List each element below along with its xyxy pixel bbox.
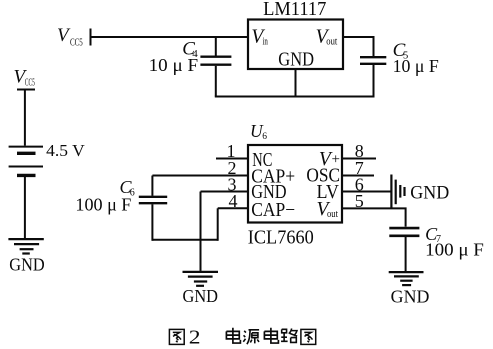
svg-text:GND: GND [9,255,44,275]
designator U6 [250,121,267,142]
IC U6 ICL7660 body [248,145,342,223]
svg-text:V: V [57,25,71,46]
label C4 [182,39,198,60]
pin label Vin [251,27,268,48]
wire: LM1117 GND pin to ground rail [295,69,297,97]
svg-text:in: in [263,37,269,48]
char lu (road) [281,328,297,342]
ground (U6 GND) [183,272,219,286]
svg-text:CC5: CC5 [25,78,35,89]
capacitor C4 [200,37,231,97]
svg-text:5: 5 [355,191,364,211]
label C6 [120,177,135,198]
svg-text:out: out [327,209,338,220]
wire: battery to ground [24,177,26,238]
pin label V+ [319,149,340,170]
wire: LM1117 Vout to C5 [343,37,374,56]
svg-text:100 μ F: 100 μ F [425,240,484,260]
pin 8 stub (V+) [342,158,376,160]
svg-text:2: 2 [189,327,201,348]
wire: VCC5 flag to battery [24,90,26,146]
svg-text:LM1117: LM1117 [263,0,327,20]
char dian (electric) [226,328,240,343]
pin 1 stub (NC) [216,158,248,160]
regulator U1 LM1117 [248,20,343,70]
wire: C6 bottom to pin 4 [152,239,217,241]
svg-text:CC5: CC5 [70,38,83,49]
wire: ground rail C4 to C5 [215,96,375,98]
figure caption: 图 2 电源电路图 [169,327,315,348]
label C7 [425,224,441,245]
capacitor C7 [389,228,419,271]
wire: pin 4 riser [217,208,219,241]
svg-text:GND: GND [183,286,219,306]
battery BT1 [9,147,43,176]
pin 6 stub / wire to ground (LV) [342,191,391,193]
svg-text:ICL7660: ICL7660 [248,226,314,248]
power flag VCC5 (battery) [14,67,36,90]
pin 4 stub (CAP-) [218,207,248,209]
svg-text:GND: GND [278,50,314,71]
pin 3 stub (GND) [201,191,249,193]
pin 5 stub / wire to C7 (Vout) [342,208,406,226]
svg-text:GND: GND [391,286,430,306]
capacitor C6 [139,176,167,241]
char dian (electric) [264,328,278,343]
svg-text:10 μ F: 10 μ F [149,55,199,75]
wire: pin 3 to ground [200,192,202,271]
pin label Vout [316,27,338,48]
label C5 [393,40,409,61]
pin 7 stub (OSC) [342,175,374,177]
power flag VCC5 (top input) [57,25,91,49]
svg-text:6: 6 [262,132,267,142]
svg-text:4.5 V: 4.5 V [46,141,85,160]
svg-text:out: out [326,37,337,48]
pin 2 stub + wire to C6 (CAP+) [152,175,248,177]
ground (battery) [8,239,43,253]
char tu (figure) [169,329,184,344]
svg-text:100 μ F: 100 μ F [75,195,131,215]
ground (C7) [389,272,424,285]
char tu (figure) [301,329,316,344]
capacitor C5 [360,57,386,96]
svg-text:CAP−: CAP− [251,200,295,221]
ground (LV, rotated) [391,175,404,209]
pin label Vout (U6) [317,199,339,220]
svg-text:GND: GND [410,183,449,203]
svg-text:4: 4 [229,191,238,211]
svg-text:10 μ F: 10 μ F [393,56,439,76]
wire: VCC5 to LM1117 Vin [91,36,249,38]
char yuan (source) [243,330,259,344]
